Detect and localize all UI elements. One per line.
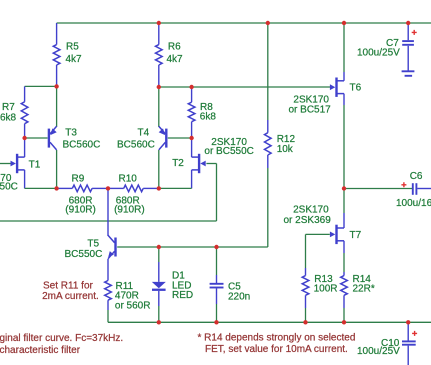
wire T6 drain — [343, 23, 345, 81]
wire output node — [344, 188, 412, 190]
resistor R6 — [156, 23, 163, 87]
svg-text:T6: T6 — [350, 82, 362, 93]
label R11 — [115, 281, 151, 311]
wire T4 collector — [158, 150, 160, 188]
node R6 bottom — [157, 85, 161, 89]
svg-text:R9: R9 — [72, 174, 85, 185]
label R9 — [65, 174, 96, 216]
label T1 — [29, 160, 41, 171]
svg-text:(910R): (910R) — [114, 205, 145, 216]
label R14 — [353, 274, 375, 295]
svg-text:characteristic filter: characteristic filter — [0, 345, 81, 356]
label C7 — [357, 38, 400, 59]
transistor T4 — [159, 126, 168, 150]
wire bottom rail — [108, 321, 431, 323]
node C5 top — [214, 245, 218, 249]
svg-text:6k8: 6k8 — [0, 112, 17, 123]
label D1 — [172, 271, 193, 301]
svg-text:6k8: 6k8 — [200, 111, 217, 122]
wire T6 source — [343, 94, 345, 189]
wire T3 emitter — [56, 86, 58, 127]
node R14 bottom — [342, 320, 346, 324]
label T7 — [350, 230, 362, 241]
label R7 — [0, 102, 17, 123]
svg-text:R5: R5 — [66, 42, 79, 53]
plus C7 — [412, 30, 417, 35]
wire T4 base — [168, 137, 192, 139]
wire T1 source to R9 — [25, 187, 57, 189]
svg-text:T3: T3 — [65, 128, 77, 139]
label R10 — [114, 174, 145, 216]
svg-text:T4: T4 — [138, 128, 150, 139]
node D1 bottom — [157, 320, 161, 324]
resistor R8 — [188, 87, 195, 138]
svg-text:4k7: 4k7 — [66, 54, 83, 65]
svg-text:* R14 depends strongly on sele: * R14 depends strongly on selected — [198, 333, 356, 344]
wire T4 emitter — [158, 87, 160, 127]
svg-text:BC550C: BC550C — [65, 249, 103, 260]
wire T1 drain — [24, 138, 26, 157]
node R12 top — [266, 21, 270, 25]
label T3 — [63, 128, 101, 151]
wire R5 bottom to R7 top — [25, 85, 57, 87]
svg-text:or 2SK369: or 2SK369 — [284, 215, 332, 226]
transistor T7 JFET — [330, 225, 344, 244]
label R5 — [66, 42, 83, 66]
svg-text:2SK170: 2SK170 — [293, 204, 329, 215]
label T7 type — [284, 204, 332, 225]
svg-text:BC560C: BC560C — [63, 139, 101, 150]
label R12 — [277, 134, 296, 155]
wire T1 source — [24, 170, 26, 189]
label R6 — [167, 42, 184, 65]
plus C6 — [401, 182, 406, 187]
wire T3 collector — [56, 150, 58, 188]
node T3 collector — [54, 186, 58, 190]
svg-text:or BC550C: or BC550C — [204, 146, 253, 157]
svg-text:Set R11 for: Set R11 for — [43, 280, 94, 291]
svg-text:100R: 100R — [314, 284, 338, 295]
wire T2 gate to feedback — [206, 164, 216, 222]
ground C7 — [402, 71, 415, 76]
label C10 — [357, 338, 400, 357]
label T4 — [117, 128, 155, 151]
node R13 bottom — [303, 320, 307, 324]
svg-text:100u/25V: 100u/25V — [357, 47, 400, 58]
wire top supply rail — [57, 22, 431, 24]
svg-text:4k7: 4k7 — [167, 54, 184, 65]
wire T3 base — [25, 137, 48, 139]
svg-text:or 560R: or 560R — [115, 300, 151, 311]
wire T2 drain — [191, 138, 193, 157]
svg-text:T7: T7 — [350, 230, 362, 241]
note filter curve — [0, 333, 123, 356]
svg-text:ginal filter curve. Fc=37kHz.: ginal filter curve. Fc=37kHz. — [0, 333, 123, 344]
label T6 — [350, 82, 362, 93]
capacitor C5 — [210, 247, 224, 322]
resistor R13 — [302, 276, 309, 323]
capacitor C7 — [402, 23, 414, 71]
label T5 — [65, 238, 103, 260]
transistor T2 JFET — [192, 154, 206, 173]
label C5 — [228, 282, 250, 303]
resistor R14 — [341, 272, 348, 322]
svg-text:or BC517: or BC517 — [289, 104, 332, 115]
transistor T5 — [108, 235, 117, 259]
svg-text:C6: C6 — [410, 171, 423, 182]
svg-text:220n: 220n — [228, 291, 250, 302]
svg-text:or BC550C: or BC550C — [0, 182, 18, 193]
node R8 top — [189, 85, 193, 89]
node D1 top — [157, 245, 161, 249]
svg-text:100u/16V: 100u/16V — [396, 198, 431, 209]
wire T5 collector — [107, 188, 109, 236]
svg-text:R6: R6 — [168, 42, 181, 53]
diode D1 LED — [152, 247, 166, 322]
resistor R12 — [265, 23, 272, 247]
svg-text:T5: T5 — [87, 238, 99, 249]
resistor R7 — [21, 86, 28, 138]
note set R11 — [42, 280, 99, 302]
label T2 — [172, 158, 184, 169]
wire T1 gate — [0, 163, 11, 165]
label C6 — [396, 171, 431, 209]
wire T7 gate — [306, 234, 330, 275]
svg-text:R10: R10 — [119, 174, 138, 185]
wire T5 emitter — [107, 259, 109, 281]
svg-text:RED: RED — [172, 290, 193, 301]
wire T7 drain — [343, 189, 345, 229]
resistor R10 — [108, 185, 159, 192]
svg-text:2mA current.: 2mA current. — [42, 291, 99, 302]
transistor T3 — [48, 126, 57, 150]
wire mid rail R6 to T6 gate — [159, 86, 330, 88]
svg-text:(910R): (910R) — [65, 205, 96, 216]
node C7 plus — [406, 21, 410, 25]
node T4 base — [189, 136, 193, 140]
node R5 bottom — [54, 84, 58, 88]
svg-text:T2: T2 — [172, 158, 184, 169]
label R8 — [200, 102, 217, 122]
wire T2 source — [159, 170, 192, 189]
node R6 top — [157, 21, 161, 25]
resistor R11 — [105, 281, 112, 323]
svg-text:FET, set value for 10mA curren: FET, set value for 10mA current. — [205, 344, 348, 355]
plus C10 — [412, 331, 417, 336]
node C10 top — [406, 320, 410, 324]
capacitor C10 — [402, 322, 416, 365]
node T4 collector — [157, 186, 161, 190]
node R9 R10 junction — [106, 186, 110, 190]
svg-text:22R*: 22R* — [353, 284, 375, 295]
resistor R5 — [53, 23, 60, 86]
node T3 base — [22, 136, 26, 140]
wire T7 source — [343, 241, 345, 272]
wire T5 base rail — [117, 246, 268, 248]
note R14 selection — [198, 333, 356, 356]
label R13 — [314, 274, 338, 295]
node T6 drain — [342, 21, 346, 25]
wire feedback to input — [0, 220, 217, 222]
capacitor C6 — [413, 183, 431, 195]
label T2 type — [204, 137, 253, 157]
label T1 type — [0, 173, 18, 193]
label T6 type — [289, 95, 332, 116]
svg-text:T1: T1 — [29, 160, 41, 171]
svg-text:100u/25V: 100u/25V — [357, 346, 400, 357]
node output — [342, 186, 346, 190]
transistor T1 JFET — [11, 154, 25, 173]
node C5 bottom — [214, 320, 218, 324]
svg-text:BC560C: BC560C — [117, 139, 155, 150]
svg-text:10k: 10k — [277, 144, 294, 155]
transistor T6 JFET — [330, 78, 344, 97]
resistor R9 — [57, 185, 108, 192]
